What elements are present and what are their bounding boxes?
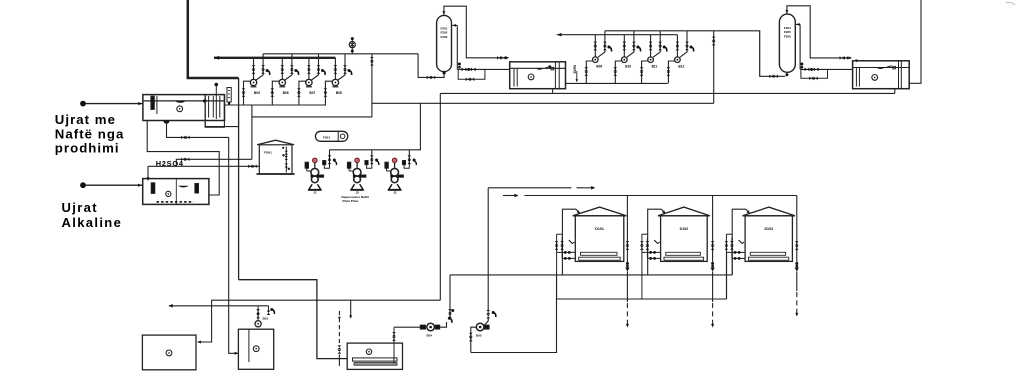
- valve pair on H2SO4 line: [248, 165, 252, 169]
- tank D102 storage tank body: [661, 216, 708, 262]
- wire: alkaline tank internal feed line: [175, 179, 177, 205]
- pump B12: [675, 57, 681, 63]
- dosing pump J2 suction riser from header: [371, 150, 373, 164]
- svg-text:B09: B09: [596, 64, 602, 68]
- header: second discharge header to V1: [263, 53, 418, 55]
- wire: recycled water line to alkaline tank (upper): [176, 159, 252, 166]
- pump B05: [250, 79, 256, 85]
- tank D103 inlet riser from H1: [732, 209, 746, 275]
- dosing pump J2 base: [351, 184, 363, 189]
- B03 tank internal pipe: [248, 329, 250, 362]
- svg-text:B07: B07: [309, 91, 315, 95]
- pump B06 spare riser with check valve: [285, 54, 292, 80]
- tank D102 instrument tick: [654, 240, 660, 244]
- tank D102 coil drain to H2: [641, 252, 643, 299]
- wire: transfer to sludge tank (elbow): [239, 280, 348, 359]
- tank D102 inlet riser from H1: [648, 209, 662, 275]
- wire: tank farm coil drain header H2: [556, 298, 727, 300]
- svg-text:J3: J3: [393, 191, 397, 195]
- B03 tank gauge: [253, 346, 259, 352]
- pump B05 suction piping: [244, 81, 251, 105]
- tank: neutralisation tank B03: [238, 329, 273, 369]
- tank D103 blowdown to sewer dashed: [796, 272, 798, 292]
- wire: tank farm inlet header H1: [450, 274, 732, 276]
- svg-text:Naftë nga: Naftë nga: [55, 127, 125, 142]
- valve pair on drop: [712, 37, 716, 41]
- T1 skim outlet dot: [203, 99, 206, 102]
- station2 bypass loop: [801, 69, 828, 78]
- wire: alkaline water inlet: [86, 184, 143, 186]
- tank D103 heating coil: [750, 252, 785, 255]
- svg-text:prodhimi: prodhimi: [55, 141, 120, 156]
- tank D103 coil return valve line: [731, 238, 733, 259]
- wire: oily water inlet to T1: [86, 103, 143, 105]
- tank D101 coil drain to H2: [556, 252, 558, 299]
- flow meter on header: [351, 38, 353, 54]
- T2 weir plates: [554, 62, 556, 89]
- T3 left internals: [855, 68, 857, 87]
- pump B10 suction piping: [615, 61, 621, 83]
- T3 weir plates: [898, 61, 900, 89]
- svg-text:D103: D103: [764, 227, 773, 231]
- valve pair on branch: [370, 57, 374, 61]
- dosing pump J3 discharge stub: [399, 175, 404, 177]
- pump B08: [332, 79, 338, 85]
- T2 bottom drain to line B: [552, 89, 554, 94]
- alkaline tank gauge: [166, 191, 171, 196]
- wire: T1 skim outlet down to feed drop line: [205, 121, 238, 127]
- tank: sludge tank with heating coil: [347, 343, 402, 369]
- dosing pump J3 suction riser from header: [408, 150, 410, 164]
- tank D101 coil supply valve line: [556, 234, 558, 252]
- control station after V2: [800, 68, 853, 70]
- pump B07: [306, 79, 312, 85]
- svg-text:B08: B08: [336, 91, 342, 95]
- dosing pump J2 left block: [347, 162, 350, 168]
- wire: line1 with arrow toward tank farm: [488, 187, 571, 189]
- pump B10 spare riser with check valve: [627, 31, 634, 57]
- svg-text:B10: B10: [625, 64, 631, 68]
- valve pair on recycle line: [181, 158, 185, 162]
- svg-text:D102: D102: [680, 227, 689, 231]
- pump B06 suction piping: [272, 81, 279, 105]
- svg-text:F203: F203: [440, 35, 447, 39]
- station bypass loop: [458, 69, 485, 79]
- pump B11 discharge riser: [650, 35, 652, 57]
- wire: tank farm drain bottom run: [471, 275, 557, 353]
- alkaline tank surface mark: [178, 186, 189, 188]
- wire: line A y103 return run: [372, 102, 714, 104]
- pump B09 discharge riser: [594, 35, 596, 57]
- wire: H1 right end bend up to D103 piping: [731, 238, 733, 275]
- pump B10 discharge riser: [623, 35, 625, 57]
- wire: line2 tank farm top header with lead arrow: [503, 195, 515, 197]
- dosing pump J1 suction riser from header: [329, 150, 331, 164]
- pump B04: [420, 325, 425, 329]
- tank D102 blowdown control valve: [711, 262, 714, 265]
- pump B12 spare riser with check valve: [680, 31, 687, 57]
- wire: V1 overhead to T2 tank: [444, 6, 508, 58]
- dosing pump J1 aux valve: [333, 159, 336, 162]
- pump B11 suction piping: [642, 61, 648, 83]
- pump B10: [622, 57, 628, 63]
- tank: left storage basin: [142, 335, 196, 370]
- svg-text:Alkaline: Alkaline: [62, 215, 123, 230]
- pump B05 spare riser with check valve: [256, 54, 263, 80]
- tank D103 storage tank body: [745, 216, 792, 262]
- pump B05b transfer pump: [476, 323, 484, 331]
- tank D101 storage tank body: [575, 216, 624, 262]
- tank T1 oily-water separator: [143, 95, 225, 121]
- wire: drop into sludge tank with arrow: [350, 300, 352, 317]
- pump B08 discharge riser: [334, 58, 336, 80]
- dosing pump J1 left block: [305, 162, 308, 168]
- dosing pump J3 left block: [385, 162, 388, 168]
- pump B12 discharge riser: [676, 35, 678, 57]
- wire: feed drop to T1 pump suction manifold / down-line: [238, 78, 240, 280]
- wire: T3 outlet right to off-page top: [909, 0, 921, 83]
- T1 bottom drain nozzle: [164, 121, 170, 124]
- pump B06 discharge riser: [281, 58, 283, 80]
- wire: V2 bottom nozzle: [786, 73, 788, 77]
- wire: V1 bottom inlet from header: [418, 54, 444, 78]
- capsule F001 chemical tank: [315, 131, 347, 141]
- control station after V1: [457, 68, 509, 70]
- tank D103 blowdown from line2: [796, 196, 798, 263]
- T1 vent line with up arrow: [215, 85, 217, 95]
- tank D101 heating coil: [581, 252, 618, 255]
- tank D103 roof inlet arrow: [746, 209, 750, 213]
- artifact top-right: [1006, 2, 1015, 5]
- T1 internal inlet baffle: [151, 96, 154, 109]
- valve pair on V1 inlet: [427, 76, 431, 80]
- wire: H2 right end bend up: [726, 252, 728, 299]
- tank D102 roof: [658, 207, 710, 216]
- svg-text:D101: D101: [595, 227, 604, 231]
- pump B08 spare riser with check valve: [338, 54, 345, 80]
- valve pair on T3 inlet: [840, 56, 844, 60]
- header: pump discharge header (thick, arrow left): [214, 57, 335, 59]
- wire: T3 bottom drain: [894, 89, 896, 94]
- T1 right sump box: [205, 95, 224, 128]
- sludge tank dip pipe to B04: [393, 330, 395, 364]
- svg-text:J1: J1: [313, 191, 317, 195]
- pump B05b discharge riser to line1: [487, 188, 489, 312]
- wire: dosing header from line A: [330, 103, 421, 150]
- tank T2 intermediate tank: [510, 62, 566, 89]
- tank T3 product tank: [853, 61, 910, 89]
- wire: header branch down to water run line: [371, 54, 373, 117]
- svg-text:B03: B03: [263, 317, 269, 321]
- pump B05 discharge riser: [253, 58, 255, 80]
- left basin gauge: [166, 350, 172, 356]
- T2 left internals: [513, 68, 515, 86]
- pump B03 on tank top: [255, 321, 261, 327]
- tank D103 instrument tick: [739, 240, 745, 244]
- svg-text:B05: B05: [476, 334, 482, 338]
- tank D103 coil drain to H2: [725, 252, 727, 299]
- tank D101 blowdown from line2: [626, 196, 628, 263]
- tank D102 coil valve stub: [642, 233, 648, 235]
- pump B11: [648, 57, 654, 63]
- svg-text:F206: F206: [784, 34, 791, 38]
- dosing pump J1 base: [309, 184, 321, 189]
- T3 surface mark: [876, 68, 885, 70]
- pump B05b suction from tank farm drain line: [471, 327, 477, 352]
- tank D101 inlet riser from H1: [562, 209, 576, 275]
- pump B07 suction piping: [299, 81, 306, 105]
- T1 level gauge circle: [177, 106, 183, 112]
- T1 weir plates right compartment: [204, 95, 206, 121]
- valve pair on V2 bottom feed: [769, 75, 773, 79]
- tank D102 coil supply valve line: [641, 234, 643, 252]
- dosing pump J1 discharge stub: [319, 175, 324, 177]
- tank D101 blowdown control valve: [626, 262, 629, 265]
- wire: long vertical x440 to bottom loop: [439, 93, 441, 300]
- pump B12 suction piping: [668, 61, 674, 83]
- header: B-pumps discharge header upper to V2: [605, 31, 785, 77]
- wire: top-left feed from off-page: [188, 0, 239, 78]
- tank D101 blowdown to sewer dashed: [626, 272, 628, 303]
- header: B-pumps discharge header lower (arrow left): [557, 34, 678, 36]
- wire: cross line y117 to main water run: [252, 116, 372, 118]
- T3 gauge: [872, 75, 878, 81]
- svg-text:B06: B06: [283, 91, 289, 95]
- tank D103 roof: [743, 207, 796, 216]
- dosing pump J3 base: [389, 184, 401, 189]
- wire: T2 suction manifold: [566, 82, 668, 84]
- wire: line B y93 from long vertical to T3 bottom: [440, 92, 895, 94]
- tank D101 instrument tick: [569, 240, 575, 244]
- wire: chemical dosing line with arrow (to B03): [169, 305, 269, 307]
- tank D101 coil return valve line: [561, 238, 563, 259]
- alkaline tank inlet baffle bars: [151, 183, 155, 194]
- FD01 internal dosing piping: [285, 147, 287, 173]
- tank D103 coil valve stub: [726, 233, 732, 235]
- wire: V2 overhead to T3 tank: [787, 6, 851, 58]
- svg-text:Ujrat: Ujrat: [62, 200, 98, 215]
- T1 liquid surface mark: [175, 101, 187, 103]
- tank D102 coil return valve line: [646, 238, 648, 259]
- T2 surface mark and skimmer: [536, 68, 544, 69]
- valve pair on T2 inlet: [497, 56, 501, 60]
- dosing pump J2 discharge stub: [361, 175, 366, 177]
- heating coil: [353, 358, 398, 361]
- house FD01 dosing shelter: [257, 140, 294, 145]
- node: inlet Ujrat me Nafte: [80, 101, 86, 107]
- tank D101 coil valve stub: [557, 233, 563, 235]
- tank alkaline (Ujrat Alkaline): [143, 179, 209, 205]
- svg-text:Ujrat me: Ujrat me: [55, 112, 116, 127]
- dosing pump J2 aux valve: [375, 159, 378, 162]
- wire: recycle riser to suction header: [251, 105, 253, 159]
- wire: V1 side nozzle line: [456, 25, 458, 69]
- svg-text:B05: B05: [254, 91, 260, 95]
- node: inlet Ujrat Alkaline: [80, 182, 86, 188]
- pump B09 spare riser with check valve: [598, 31, 605, 57]
- wire: T1 center drain down/right to B03 tank drop: [167, 122, 229, 138]
- tank D101 roof: [573, 207, 627, 216]
- sludge tank gauge: [366, 349, 371, 354]
- wire: header valve drop at x713: [713, 31, 715, 104]
- valve pair on T1 drain line: [181, 136, 185, 140]
- wire: V2 side nozzle line: [799, 24, 801, 69]
- alkaline tank aeration dashed bottom: [157, 201, 194, 203]
- wire: drain drop to neutralisation tank: [229, 137, 239, 353]
- pump B04 discharge to tank farm header H1: [440, 322, 447, 327]
- tank D102 blowdown to sewer dashed: [712, 272, 714, 303]
- tank D102 roof inlet arrow: [661, 209, 665, 213]
- pump B06: [279, 79, 285, 85]
- pump B07 discharge riser: [308, 58, 310, 80]
- wire: T1 left drain to alkaline tank right side: [147, 121, 219, 196]
- svg-text:F001: F001: [323, 135, 330, 139]
- vessel V2 filter column: [779, 14, 795, 72]
- svg-text:Depresand e Naftit: Depresand e Naftit: [342, 195, 369, 199]
- V1 bottom nozzle dot: [443, 71, 446, 74]
- dashed drain line with valve into sludge tank: [338, 311, 340, 343]
- svg-text:B12: B12: [678, 64, 684, 68]
- wire: bottom loop to left rect tank: [198, 300, 441, 342]
- svg-text:Naftë: Naftë: [572, 65, 576, 74]
- dosing pump J2: [355, 158, 359, 162]
- wire: suction manifold from T1: [224, 104, 326, 106]
- pump B09 suction piping: [586, 61, 592, 83]
- tank D102 heating coil: [666, 252, 701, 255]
- svg-text:FD01: FD01: [264, 151, 272, 155]
- pump B03 suction/discharge valves: [257, 306, 259, 321]
- vessel V1 filter column: [437, 15, 452, 71]
- pump B07 spare riser with check valve: [312, 54, 319, 80]
- dosing pump J1: [313, 158, 317, 162]
- T2 gauge: [528, 74, 534, 80]
- svg-text:Pista Pista: Pista Pista: [343, 199, 359, 203]
- pump B08 suction piping: [325, 81, 332, 105]
- tank D103 coil supply valve line: [725, 234, 727, 252]
- svg-text:B11: B11: [652, 64, 658, 68]
- svg-text:B04: B04: [427, 334, 433, 338]
- pump B11 spare riser with check valve: [653, 31, 660, 57]
- dosing pump J3: [393, 158, 397, 162]
- pump B09: [593, 57, 599, 63]
- tank D103 blowdown control valve: [795, 262, 798, 265]
- T3 inlet arrow: [855, 60, 858, 63]
- tank D102 blowdown from line2: [712, 196, 714, 263]
- tank D101 roof inlet arrow: [576, 209, 580, 213]
- wire: H2SO4 dosing line into alkaline tank: [148, 165, 259, 167]
- T1 level instrument: [227, 88, 231, 103]
- dosing pump J3 aux valve: [413, 159, 416, 162]
